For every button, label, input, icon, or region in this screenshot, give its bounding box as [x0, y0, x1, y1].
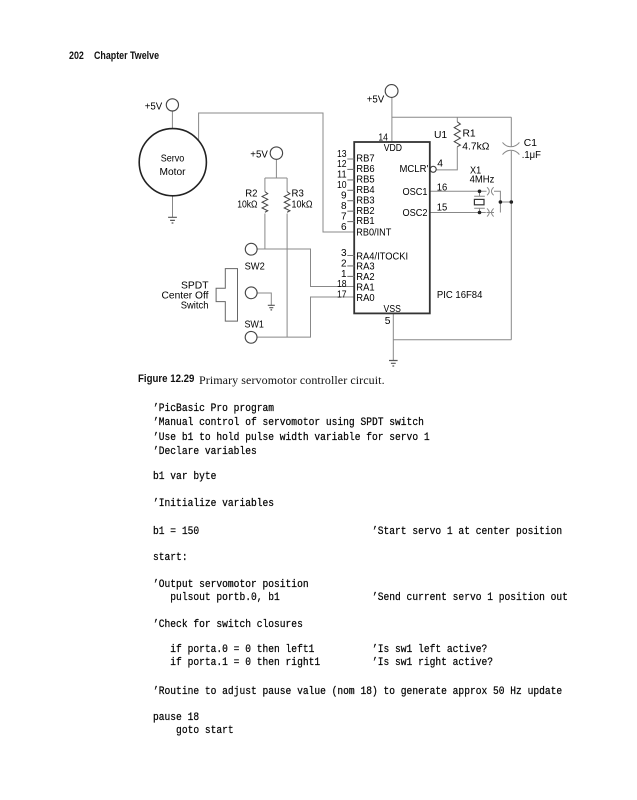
svg-text:14: 14 [378, 133, 388, 144]
svg-text:RB1: RB1 [356, 216, 375, 227]
svg-text:11: 11 [337, 170, 347, 181]
svg-text:4: 4 [437, 159, 443, 170]
svg-text:Motor: Motor [160, 167, 187, 178]
svg-text:RB2: RB2 [356, 206, 375, 217]
svg-text:5: 5 [385, 316, 391, 327]
svg-text:Switch: Switch [181, 301, 209, 312]
svg-text:10kΩ: 10kΩ [237, 200, 258, 211]
svg-text:+5V: +5V [250, 150, 268, 161]
svg-text:4MHz: 4MHz [470, 175, 495, 186]
svg-text:+5V: +5V [367, 94, 385, 105]
svg-text:4.7kΩ: 4.7kΩ [462, 141, 489, 152]
svg-text:RB0/INT: RB0/INT [356, 228, 391, 239]
svg-text:RA4/ITOCKI: RA4/ITOCKI [356, 251, 408, 262]
svg-text:R2: R2 [245, 189, 258, 200]
svg-text:U1: U1 [434, 130, 447, 141]
svg-text:R1: R1 [463, 128, 476, 139]
svg-text:VDD: VDD [384, 143, 402, 154]
svg-text:2: 2 [341, 258, 347, 269]
svg-text:12: 12 [337, 159, 347, 170]
svg-text:PIC 16F84: PIC 16F84 [437, 290, 483, 301]
svg-text:OSC2: OSC2 [403, 208, 428, 219]
svg-text:15: 15 [437, 202, 448, 213]
svg-text:13: 13 [337, 149, 347, 160]
svg-text:SW1: SW1 [244, 320, 264, 331]
svg-text:RB5: RB5 [356, 175, 375, 186]
svg-text:9: 9 [341, 191, 347, 202]
svg-text:Servo: Servo [161, 153, 185, 164]
svg-text:3: 3 [341, 248, 347, 259]
svg-text:10kΩ: 10kΩ [292, 200, 313, 211]
svg-text:8: 8 [341, 201, 347, 212]
svg-text:RA3: RA3 [356, 262, 375, 273]
svg-text:RB3: RB3 [356, 195, 375, 206]
svg-text:6: 6 [341, 222, 347, 233]
svg-text:R3: R3 [292, 189, 305, 200]
svg-text:RB6: RB6 [356, 164, 375, 175]
svg-text:VSS: VSS [384, 304, 401, 315]
svg-text:RA1: RA1 [356, 282, 375, 293]
svg-text:OSC1: OSC1 [403, 187, 428, 198]
svg-text:.1μF: .1μF [522, 150, 541, 161]
svg-text:RB7: RB7 [356, 154, 375, 165]
svg-text:SW2: SW2 [245, 262, 265, 273]
svg-text:18: 18 [337, 279, 347, 290]
svg-text:MCLR': MCLR' [400, 164, 429, 175]
svg-text:7: 7 [341, 211, 347, 222]
svg-text:RB4: RB4 [356, 185, 375, 196]
svg-text:RA0: RA0 [356, 293, 375, 304]
svg-text:17: 17 [337, 290, 347, 301]
svg-text:+5V: +5V [145, 101, 163, 112]
svg-text:10: 10 [337, 180, 347, 191]
svg-text:C1: C1 [524, 138, 537, 149]
svg-text:16: 16 [437, 182, 448, 193]
